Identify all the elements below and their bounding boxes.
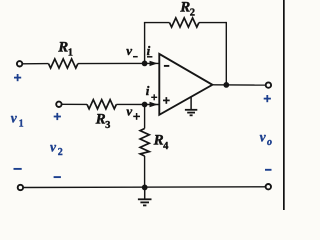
svg-text:v: v: [260, 129, 267, 144]
svg-text:i: i: [147, 43, 151, 58]
terminal bottom-right: [266, 184, 271, 189]
bottom rail wire: [23, 186, 265, 189]
node v-: [142, 61, 148, 67]
svg-text:2: 2: [58, 147, 63, 158]
ground (bottom center): [138, 187, 152, 205]
svg-text:3: 3: [105, 120, 110, 131]
wire: [62, 103, 87, 105]
wire (to R4): [144, 105, 146, 129]
svg-text:R: R: [95, 112, 106, 128]
svg-text:R: R: [179, 0, 190, 15]
svg-text:v: v: [50, 139, 57, 154]
op-amp plus pin mark: [163, 97, 170, 104]
svg-text:v: v: [126, 43, 132, 58]
wire: [78, 62, 159, 64]
svg-text:R: R: [153, 133, 164, 149]
svg-text:o: o: [267, 137, 272, 148]
terminal output: [266, 82, 271, 87]
wire: [23, 63, 49, 65]
terminal input 2: [56, 102, 61, 107]
plus sign vo (blue): [264, 95, 271, 102]
current arrow i-: [150, 61, 158, 66]
terminal input 1: [17, 61, 22, 66]
minus sign v1 (blue): [14, 168, 22, 170]
node v+: [142, 102, 148, 108]
svg-text:1: 1: [19, 118, 24, 129]
svg-text:i: i: [146, 83, 150, 98]
wire (R4 to bottom rail): [144, 156, 146, 187]
wire (R2 loop right vertical): [225, 22, 227, 85]
plus sign v2 (blue): [54, 113, 61, 120]
wire (R2 loop left vertical): [144, 23, 146, 64]
svg-text:4: 4: [163, 141, 169, 152]
terminal bottom-left: [18, 185, 23, 190]
resistor R4: [140, 129, 149, 157]
page border line (right): [283, 0, 285, 210]
minus sign vo (blue): [265, 169, 272, 171]
ground (op-amp): [185, 97, 197, 116]
svg-text:R: R: [57, 39, 68, 55]
svg-text:v: v: [126, 104, 132, 119]
current arrow i+: [150, 102, 158, 107]
node bottom: [142, 185, 148, 191]
minus sign v2 (blue): [54, 176, 61, 178]
svg-text:2: 2: [190, 8, 195, 19]
resistor R1: [49, 59, 78, 68]
resistor R3: [87, 100, 116, 109]
node output: [223, 82, 229, 88]
output wire: [212, 84, 265, 86]
plus sign v1 (blue): [14, 74, 21, 81]
op-amp U1: [159, 54, 212, 115]
wire (R2 loop top-left): [144, 22, 170, 24]
svg-text:1: 1: [68, 48, 73, 59]
wire (R2 loop top-right): [199, 22, 226, 24]
wire: [116, 103, 159, 105]
svg-text:v: v: [11, 111, 18, 126]
resistor R2: [170, 18, 199, 27]
op-amp minus pin mark: [164, 65, 169, 67]
